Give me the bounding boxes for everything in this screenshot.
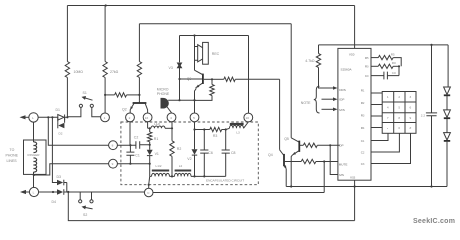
svg-text:NOTE: NOTE	[301, 101, 311, 105]
diode CR1	[444, 87, 451, 95]
switch S1	[67, 91, 100, 117]
svg-text:C6: C6	[208, 151, 213, 155]
wire VSS to ground bus and bottom rail	[354, 180, 356, 220]
svg-text:DRS: DRS	[339, 88, 346, 92]
svg-text:SeekIC.com: SeekIC.com	[413, 218, 455, 225]
wire right supply rail	[319, 44, 449, 46]
svg-text:3: 3	[410, 95, 412, 99]
svg-text:V3: V3	[169, 66, 173, 70]
svg-text:10: 10	[246, 116, 250, 120]
svg-text:MICRO: MICRO	[157, 87, 169, 91]
svg-text:L: L	[33, 191, 35, 195]
svg-text:D3: D3	[57, 175, 62, 179]
diode V3	[169, 36, 183, 101]
terminal B circle	[126, 113, 135, 122]
transistor Q4	[268, 79, 301, 186]
phone terminal bottom circle with arrow	[20, 187, 39, 196]
resistor R1	[148, 127, 159, 150]
svg-text:L1/2: L1/2	[156, 164, 162, 168]
svg-text:2.2: 2.2	[421, 113, 426, 117]
diode D3	[57, 175, 64, 186]
switch S2	[79, 192, 94, 217]
wire rail C	[180, 34, 249, 36]
note brace and arrows	[301, 86, 338, 113]
svg-text:1: 1	[104, 116, 106, 120]
svg-text:MUTE: MUTE	[339, 162, 348, 166]
microphone symbol	[157, 87, 172, 112]
wire keypad col C1	[371, 133, 388, 140]
svg-text:S2: S2	[83, 213, 87, 217]
diode CR3	[444, 133, 451, 141]
svg-text:4: 4	[170, 116, 172, 120]
wire top rail A	[67, 5, 354, 7]
svg-text:LINES: LINES	[7, 159, 18, 163]
wire terminal B into box	[129, 122, 131, 145]
transistor Q3	[180, 70, 203, 100]
wire terminal L inner run	[117, 163, 150, 165]
ringer coil lower	[34, 158, 37, 172]
svg-text:TO: TO	[10, 148, 15, 152]
svg-text:10MΩ: 10MΩ	[74, 70, 84, 74]
svg-text:S2560A: S2560A	[341, 67, 353, 71]
terminal 6 circle	[244, 113, 253, 122]
wire MUTE drop to line C	[323, 160, 338, 192]
svg-text:L: L	[32, 116, 34, 120]
diode D2	[58, 123, 65, 136]
wire emitter ground bus	[286, 185, 447, 187]
svg-text:4.7kΩ: 4.7kΩ	[305, 59, 315, 63]
diode CR2	[444, 110, 451, 118]
resistor 4.7k DRS	[305, 45, 337, 90]
terminal 4 circle	[167, 113, 176, 122]
svg-text:9: 9	[112, 162, 114, 166]
wire mic output	[168, 99, 195, 113]
terminal C circle	[144, 184, 153, 197]
wire phone bottom line	[39, 191, 145, 193]
resistor R-C top of Q2	[137, 24, 141, 101]
transistor Q2	[122, 101, 148, 113]
inductor L1/2 top coil	[148, 122, 172, 129]
svg-text:R0: R0	[392, 61, 396, 65]
svg-text:R2: R2	[177, 147, 182, 151]
ringer box	[24, 140, 47, 174]
svg-text:R3: R3	[213, 134, 218, 138]
diode chain vertical wire	[447, 45, 448, 187]
wire keypad col C2	[371, 133, 399, 152]
resistor Q5 base	[303, 143, 339, 147]
svg-text:ENCAPSULATED CIRCUIT: ENCAPSULATED CIRCUIT	[206, 179, 244, 183]
wire terminal L feed	[33, 164, 109, 176]
resistor R3	[195, 127, 227, 138]
svg-text:1: 1	[387, 95, 389, 99]
svg-text:0: 0	[398, 126, 400, 130]
svg-text:R1: R1	[154, 137, 159, 141]
svg-text:S1: S1	[83, 91, 87, 95]
svg-text:7: 7	[387, 116, 389, 120]
terminal A circle	[101, 113, 110, 122]
svg-text:C8: C8	[231, 151, 236, 155]
watermark SeekIC.com	[413, 218, 455, 225]
svg-text:VDD: VDD	[349, 53, 355, 57]
terminal L circle	[109, 159, 118, 168]
resistor R2	[170, 122, 182, 177]
svg-text:C1: C1	[135, 153, 140, 157]
wire left drop long	[52, 117, 57, 182]
svg-text:5: 5	[398, 106, 400, 110]
svg-text:L2: L2	[179, 164, 183, 168]
svg-text:R5: R5	[391, 53, 395, 57]
svg-text:27kΩ: 27kΩ	[110, 70, 119, 74]
svg-text:Q2: Q2	[122, 108, 127, 112]
resistor Q3 to Q4 collector	[212, 77, 280, 81]
keypad matrix	[382, 92, 416, 134]
svg-text:C2: C2	[134, 135, 139, 139]
wire phone top line to diodes	[47, 116, 53, 118]
svg-text:MS: MS	[339, 173, 344, 177]
diode D4	[52, 189, 64, 204]
ringer coil upper	[34, 142, 37, 153]
svg-text:D1: D1	[56, 108, 61, 112]
svg-text:Q3: Q3	[187, 77, 192, 81]
svg-text:8: 8	[398, 116, 400, 120]
capacitor C6	[200, 130, 213, 177]
svg-text:2: 2	[398, 95, 400, 99]
svg-text:Q5: Q5	[284, 137, 289, 141]
resistor 27k R-B	[103, 6, 119, 113]
svg-text:DP: DP	[339, 143, 343, 147]
IC S2560A box	[338, 48, 371, 180]
wire left drop to terminal R	[48, 117, 108, 145]
wire bottom line to right	[153, 192, 324, 194]
terminal R circle	[109, 141, 118, 150]
svg-text:5: 5	[193, 116, 195, 120]
svg-text:9: 9	[410, 116, 412, 120]
wire diode pair stubs	[38, 116, 68, 122]
wire node5 into box	[193, 122, 195, 150]
wire DP to MS link	[330, 145, 338, 174]
capacitor C8	[222, 130, 236, 177]
diode D1	[56, 108, 65, 120]
capacitor 2.2	[421, 45, 437, 187]
capacitor C0 oscillator	[371, 66, 399, 79]
svg-text:D2: D2	[59, 131, 63, 135]
wire diode D3 stub right	[64, 183, 67, 193]
encapsulated circuit dashed box	[121, 122, 258, 185]
svg-text:PHONE: PHONE	[6, 153, 19, 157]
svg-text:Q4: Q4	[268, 153, 273, 157]
diode V1	[147, 150, 159, 177]
resistor 10M R-A	[65, 6, 83, 118]
svg-text:VSS: VSS	[350, 176, 356, 180]
wire keypad row R3	[371, 115, 382, 117]
wire keypad row R2	[371, 104, 382, 106]
wire box bottom bus	[149, 175, 226, 184]
svg-text:16: 16	[145, 116, 149, 120]
wire keypad row R4	[371, 127, 382, 129]
svg-text:M/S: M/S	[339, 108, 345, 112]
svg-text:IDP: IDP	[339, 98, 344, 102]
wire keypad col C3	[371, 133, 411, 163]
transistor Q5	[284, 24, 303, 187]
svg-text:#: #	[410, 126, 412, 130]
wire rail B	[139, 23, 291, 25]
svg-text:D4: D4	[52, 200, 57, 204]
svg-text:L1/2: L1/2	[154, 122, 160, 126]
inductor L2 coil	[175, 164, 192, 176]
wire ringer stubs	[33, 122, 35, 187]
capacitor C1	[126, 144, 139, 165]
phone terminal top circle with arrow	[20, 113, 39, 122]
wire keypad row R1	[371, 92, 382, 94]
terminal 5 circle	[190, 113, 199, 122]
svg-text:6: 6	[410, 106, 412, 110]
resistor Q4 base	[301, 159, 324, 163]
wire rail C drop to terminal 6	[248, 36, 250, 114]
capacitor C2	[117, 135, 149, 148]
svg-text:C0: C0	[392, 71, 396, 75]
svg-text:V1: V1	[155, 152, 159, 156]
node rail A to 27k tap	[105, 4, 107, 6]
resistor Q3 emitter	[195, 78, 215, 100]
svg-text:8: 8	[112, 144, 114, 148]
wire VDD feed	[354, 6, 356, 49]
resistor R0 oscillator	[371, 61, 400, 69]
text TO PHONE LINES	[6, 148, 19, 163]
svg-text:L3: L3	[236, 130, 240, 134]
inductor L3 coil	[226, 122, 248, 134]
inductor L1/2 bottom coil	[152, 164, 170, 176]
wire bottom rail	[68, 192, 354, 221]
svg-text:REC: REC	[212, 52, 220, 56]
terminal 3 circle	[143, 113, 152, 122]
svg-text:PHONE: PHONE	[157, 92, 170, 96]
speaker REC	[195, 36, 220, 71]
diode V2	[187, 149, 197, 176]
svg-text:4: 4	[387, 106, 389, 110]
resistor R5 oscillator	[371, 53, 401, 67]
svg-text:RINGER: RINGER	[28, 153, 41, 157]
resistor horizontal base R-D	[105, 93, 139, 97]
svg-text:2: 2	[129, 116, 131, 120]
svg-text:V2: V2	[187, 157, 191, 161]
